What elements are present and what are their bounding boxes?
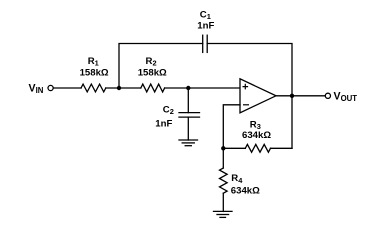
svg-text:158kΩ: 158kΩ <box>138 68 167 79</box>
svg-text:C2: C2 <box>163 105 174 117</box>
svg-text:158kΩ: 158kΩ <box>80 68 109 79</box>
svg-text:1nF: 1nF <box>197 20 214 31</box>
svg-text:C1: C1 <box>200 9 211 21</box>
svg-text:634kΩ: 634kΩ <box>242 130 271 141</box>
svg-text:R4: R4 <box>231 173 243 185</box>
svg-text:R2: R2 <box>146 56 157 68</box>
svg-text:R1: R1 <box>88 56 99 68</box>
svg-text:1nF: 1nF <box>155 118 172 129</box>
svg-text:634kΩ: 634kΩ <box>231 186 260 197</box>
